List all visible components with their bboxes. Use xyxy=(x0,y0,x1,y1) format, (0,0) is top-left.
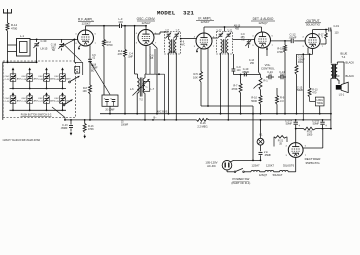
T-3 secondary coil xyxy=(227,40,229,54)
push button switch box S-3 xyxy=(3,61,76,118)
svg-text:470K: 470K xyxy=(88,128,94,131)
wire antenna down xyxy=(7,31,9,62)
switch arm S3a xyxy=(69,81,71,83)
heater 12SK7 xyxy=(265,170,274,171)
svg-text:AB-10: AB-10 xyxy=(234,25,241,28)
wire C7 down xyxy=(109,106,111,113)
wire T-2 sec out xyxy=(175,37,177,40)
trimmer C-29 row2 xyxy=(61,92,64,95)
node R-7 b xyxy=(240,113,242,115)
svg-text:250: 250 xyxy=(280,74,285,77)
svg-text:.01MF: .01MF xyxy=(289,36,297,40)
wire heater run xyxy=(244,171,251,173)
svg-text:35L6GT6: 35L6GT6 xyxy=(283,163,295,167)
svg-text:470: 470 xyxy=(312,91,317,94)
svg-text:CONTROL: CONTROL xyxy=(261,66,275,70)
svg-text:LS-1: LS-1 xyxy=(339,92,345,96)
node osc b1 xyxy=(136,113,138,115)
wire V1 cathode hook xyxy=(79,46,81,49)
svg-text:10K: 10K xyxy=(83,90,88,93)
wire loop top xyxy=(30,38,37,40)
svg-text:.05MF: .05MF xyxy=(242,70,250,74)
svg-text:BLACK: BLACK xyxy=(346,74,355,78)
IF transformer T-2 box xyxy=(165,32,181,55)
svg-text:C-22: C-22 xyxy=(5,79,11,81)
tube V5 OUTPUT 50L6GT xyxy=(305,34,320,49)
output transformer T-4 xyxy=(331,65,333,79)
capacitor C-14 xyxy=(280,75,282,79)
svg-text:C-27: C-27 xyxy=(38,101,44,103)
wire V1 plate up xyxy=(85,26,87,30)
osc coil L-6 xyxy=(137,78,139,93)
tube V2 OSC.-CONV. 12SA7 xyxy=(138,30,154,46)
tube V1 R.F. AMPL 12SK7 xyxy=(78,30,94,46)
T-3 core xyxy=(223,39,225,53)
node C-13 xyxy=(70,119,72,121)
tone switch box xyxy=(315,97,324,106)
resistor R-7 xyxy=(240,75,242,84)
svg-text:50L6GT/G: 50L6GT/G xyxy=(306,23,321,27)
node R-15 bus xyxy=(284,113,286,115)
resistor R-13 xyxy=(84,120,86,124)
svg-text:12SA7: 12SA7 xyxy=(251,164,260,168)
T-2 primary coil xyxy=(169,40,171,54)
capacitor C-13 xyxy=(70,120,72,125)
svg-text:C-28: C-28 xyxy=(54,79,60,81)
svg-text:TONE: TONE xyxy=(317,103,324,105)
T-2 trimmer C-9 xyxy=(175,33,179,35)
svg-text:I-1: I-1 xyxy=(259,132,263,136)
svg-text:CAPACITY VALUES IN MMF UNLESS: CAPACITY VALUES IN MMF UNLESS NOTED xyxy=(3,138,41,142)
svg-text:OSC: OSC xyxy=(5,76,10,78)
wire osc bottoms xyxy=(136,93,138,114)
wire V3 top xyxy=(203,27,205,33)
wire V2 top xyxy=(145,26,147,30)
loop antenna L-1 xyxy=(17,39,31,57)
wire V4 plate out xyxy=(271,40,292,42)
wire R-5 bottom run xyxy=(201,105,253,107)
svg-text:C-10: C-10 xyxy=(217,29,223,31)
wire h4 xyxy=(288,171,296,173)
node loop-bot xyxy=(36,61,38,63)
resistor R-2 xyxy=(103,40,106,47)
node c17a xyxy=(295,119,297,121)
wire plug top xyxy=(230,160,233,162)
node osc b2 xyxy=(144,119,146,121)
svg-text:100: 100 xyxy=(118,20,123,24)
wire diag cath xyxy=(90,62,110,95)
svg-text:RED: RED xyxy=(335,76,340,78)
node top-104 xyxy=(103,25,105,27)
wire rect cath dn xyxy=(295,157,297,171)
wire V4 cathode down xyxy=(258,48,260,73)
svg-text:R-1: R-1 xyxy=(264,79,269,83)
wire top B+ line xyxy=(86,25,120,27)
node T-3 b2 xyxy=(227,119,229,121)
svg-text:110: 110 xyxy=(237,69,242,72)
capacitor C-24 xyxy=(268,75,270,79)
antenna xyxy=(4,9,12,13)
node V2 top xyxy=(145,25,147,27)
svg-text:.01: .01 xyxy=(268,74,272,77)
svg-text:50MF: 50MF xyxy=(297,89,304,92)
wire lamp dn xyxy=(260,145,262,151)
svg-text:OSC: OSC xyxy=(38,98,43,100)
wire V4 pin stub xyxy=(266,47,268,57)
node T-3 b1 xyxy=(220,113,222,115)
svg-text:470K: 470K xyxy=(231,87,237,91)
wire screen drop x104 xyxy=(103,26,105,40)
wire plug bottom xyxy=(226,170,228,172)
wire V3 plate xyxy=(212,37,217,39)
wire row1 bus xyxy=(10,88,67,90)
wire step xyxy=(74,39,76,62)
wire rect side xyxy=(303,147,323,149)
svg-text:T-2: T-2 xyxy=(139,99,143,102)
capacitor C-5 xyxy=(88,58,92,60)
svg-text:L-7: L-7 xyxy=(151,88,155,91)
svg-text:50L6GT: 50L6GT xyxy=(273,173,283,177)
electrolytic C-17A xyxy=(295,120,297,122)
svg-text:(PART OF R-1): (PART OF R-1) xyxy=(231,181,250,185)
wire grid line xyxy=(37,38,78,40)
svg-text:+: + xyxy=(325,124,327,128)
capacitor C-10d xyxy=(243,73,245,77)
capacitor C-12a xyxy=(232,68,236,70)
wire ground run xyxy=(3,61,8,63)
wire V5 cath xyxy=(302,54,304,120)
node bus cross1 xyxy=(152,119,154,121)
wire V2 plate to T-2 xyxy=(154,33,160,35)
shield box M xyxy=(75,66,80,73)
wire V2 pin4 xyxy=(154,49,156,74)
tube V4 DET. & AUDIO 12SQ7 xyxy=(255,32,271,48)
svg-text:C-18: C-18 xyxy=(91,65,97,67)
resistor R-16 xyxy=(197,119,210,122)
wire top right B+ xyxy=(313,29,328,31)
trimmer C-23 row2 xyxy=(12,92,15,95)
resistor R-9 xyxy=(276,88,278,96)
svg-text:BLUE: BLUE xyxy=(341,52,348,56)
node R5-253 xyxy=(252,113,254,115)
svg-text:AVC: AVC xyxy=(181,43,186,46)
svg-text:L8-15: L8-15 xyxy=(41,47,48,51)
speaker LS-1 xyxy=(336,85,341,90)
svg-text:OSC: OSC xyxy=(5,98,10,100)
wire osc right top xyxy=(144,74,146,78)
wire rect plate up xyxy=(295,129,297,143)
wire T-2 drops xyxy=(168,53,170,114)
capacitor C-19 xyxy=(328,28,330,32)
power switch xyxy=(234,171,236,173)
wire x164 drop xyxy=(164,74,166,120)
bus B- y119.9 xyxy=(64,119,197,121)
node v5cath-b xyxy=(302,119,304,121)
switch arm S3b xyxy=(63,104,65,106)
svg-text:.05MF: .05MF xyxy=(60,127,68,130)
bus AVC y113.7 xyxy=(100,113,331,115)
svg-text:C-23: C-23 xyxy=(5,101,11,103)
T-3 trimmer C-11 xyxy=(227,33,231,35)
svg-text:R-5: R-5 xyxy=(193,72,198,76)
trimmer C-26 row1 xyxy=(45,68,48,71)
resistor R-11 xyxy=(296,54,298,65)
svg-text:4700: 4700 xyxy=(107,43,113,47)
resistor R-10 xyxy=(260,90,262,96)
svg-text:C-29: C-29 xyxy=(54,101,60,103)
resistor R-8 xyxy=(89,62,91,85)
resistor R-3 xyxy=(124,26,126,50)
svg-text:+: + xyxy=(110,96,112,100)
svg-text:47K: 47K xyxy=(118,52,123,56)
wire V3 cath drop xyxy=(207,48,209,106)
AC plug xyxy=(222,160,232,170)
trimmer C-24 row1 xyxy=(28,68,31,71)
node T-2 b2 xyxy=(175,119,177,121)
capacitor C-12 xyxy=(290,39,292,43)
wire h3 xyxy=(274,171,280,173)
wire plate drop xyxy=(330,30,332,64)
node C7 bus xyxy=(109,113,111,115)
svg-text:2.2 MEG.: 2.2 MEG. xyxy=(197,124,208,128)
T-3 trimmer C-10 xyxy=(219,33,223,35)
resistor R-17 xyxy=(325,30,327,34)
tube V6 rectifier 35Z5GT xyxy=(288,143,303,158)
svg-text:470K: 470K xyxy=(277,50,283,54)
trimmer C-30 xyxy=(36,39,38,42)
tube V3 I.F. AMPL 12SK7 xyxy=(196,33,212,49)
capacitor C-3 xyxy=(119,24,121,28)
heater 12SQ7 xyxy=(280,170,289,171)
node loop-top xyxy=(36,39,38,41)
trimmer C-16 xyxy=(61,39,63,42)
svg-text:ANT: ANT xyxy=(66,78,71,81)
svg-text:OSC: OSC xyxy=(54,76,59,78)
svg-text:35Z5GT/G: 35Z5GT/G xyxy=(305,161,320,165)
svg-text:12SK7: 12SK7 xyxy=(200,20,209,24)
trimmer C-13g xyxy=(248,40,250,41)
wire v5 g xyxy=(297,53,313,55)
wire sw diag xyxy=(52,107,65,118)
svg-text:+: + xyxy=(298,124,300,128)
trimmer C-27 row2 xyxy=(45,92,48,95)
capacitor C-21 xyxy=(259,151,263,153)
wire B+ row xyxy=(296,128,304,130)
volume control R-1 xyxy=(258,74,261,76)
wire T-3 drops xyxy=(220,53,222,114)
heater 12SA7 xyxy=(251,170,260,171)
svg-text:12SK7: 12SK7 xyxy=(266,164,275,168)
svg-text:C-24: C-24 xyxy=(21,79,27,81)
svg-text:AC-DC: AC-DC xyxy=(207,164,216,168)
trimmer C-28 row1 xyxy=(61,68,64,71)
node scr xyxy=(325,29,327,31)
svg-text:455 KC: 455 KC xyxy=(168,50,177,54)
svg-text:50MF: 50MF xyxy=(313,123,320,126)
svg-text:OSC: OSC xyxy=(21,76,26,78)
wire V3 k hook xyxy=(197,48,199,51)
svg-text:1000: 1000 xyxy=(307,133,313,136)
wire V1 k drop xyxy=(89,45,91,59)
svg-text:BO: BO xyxy=(91,71,95,73)
osc padder box xyxy=(144,81,150,91)
osc coil core xyxy=(139,78,141,97)
svg-text:L-6: L-6 xyxy=(130,88,134,91)
svg-text:.05MF: .05MF xyxy=(91,68,98,70)
svg-text:12SQ7: 12SQ7 xyxy=(259,173,268,177)
node R-13 xyxy=(84,119,86,121)
node det-240 xyxy=(240,74,242,76)
svg-text:BLACK: BLACK xyxy=(346,61,355,65)
svg-text:250: 250 xyxy=(250,62,255,65)
node T4 bus xyxy=(330,113,332,115)
wire V2 pin5 xyxy=(152,43,157,48)
node R-11 b xyxy=(296,113,298,115)
resistor R-14 xyxy=(6,23,9,31)
svg-text:OSC: OSC xyxy=(38,76,43,78)
resistor R-12 xyxy=(309,54,311,88)
svg-text:C-11: C-11 xyxy=(227,29,232,31)
node x134.6 top xyxy=(134,25,136,27)
resistor R-21 xyxy=(274,136,287,139)
svg-text:12SA7: 12SA7 xyxy=(141,21,150,25)
svg-text:MODEL 321: MODEL 321 xyxy=(157,9,195,16)
node R-3 bottom xyxy=(124,113,126,115)
IF transformer T-3 box xyxy=(217,32,233,55)
osc tuning arrow xyxy=(133,79,150,96)
svg-text:AVC BUS: AVC BUS xyxy=(157,111,168,114)
node antenna-ground xyxy=(7,61,9,63)
trimmer C-22 row1 xyxy=(12,68,15,71)
node R-10 b xyxy=(260,113,262,115)
svg-text:PUSH BUTTON SWITCH S-3: PUSH BUTTON SWITCH S-3 xyxy=(21,113,52,117)
svg-text:T-4: T-4 xyxy=(342,55,346,59)
node T-2 b1 xyxy=(168,113,170,115)
T-4 leads xyxy=(336,62,338,65)
wire T-3 out xyxy=(233,39,255,41)
pilot lamp I-1 xyxy=(257,138,264,145)
T-2 trimmer C-8 xyxy=(167,33,171,35)
wire osc drop xyxy=(134,26,136,74)
svg-text:C-25: C-25 xyxy=(21,101,27,103)
svg-text:4700: 4700 xyxy=(11,27,18,31)
wire lamp up xyxy=(260,120,262,138)
svg-text:+: + xyxy=(104,96,106,100)
svg-text:5000: 5000 xyxy=(251,99,257,103)
wire det line xyxy=(233,74,258,76)
electrolytic C-7 box xyxy=(102,95,118,106)
wire V4 top xyxy=(261,27,263,32)
svg-text:KC: KC xyxy=(241,40,245,42)
wire tone to bus xyxy=(309,97,311,101)
svg-text:LONG: LONG xyxy=(316,100,323,102)
electrolytic C-17B xyxy=(322,120,324,122)
svg-text:.05MF: .05MF xyxy=(264,154,272,157)
T-3 primary coil xyxy=(221,40,223,54)
svg-text:L-1: L-1 xyxy=(20,34,24,38)
svg-text:10K: 10K xyxy=(193,75,198,79)
svg-text:110: 110 xyxy=(335,32,340,35)
svg-text:3.3: 3.3 xyxy=(280,99,284,103)
trimmer C-25 row2 xyxy=(28,92,31,95)
svg-text:12SK7: 12SK7 xyxy=(81,21,90,25)
T-2 core xyxy=(171,39,173,53)
T-2 secondary coil xyxy=(175,40,177,54)
svg-text:OSC: OSC xyxy=(21,98,26,100)
svg-text:C-26: C-26 xyxy=(38,79,44,81)
wire h2 xyxy=(260,171,265,173)
wire V5 plate top xyxy=(312,30,314,34)
osc coil L-7 xyxy=(143,78,145,93)
svg-text:C-30: C-30 xyxy=(41,39,47,43)
resistor R-20 xyxy=(304,127,316,130)
svg-text:300V: 300V xyxy=(298,61,304,64)
node R-3 top xyxy=(124,25,126,27)
svg-text:50MF: 50MF xyxy=(286,123,293,126)
wire C-12 to V5 xyxy=(294,40,305,42)
resistor R-5 xyxy=(200,49,202,72)
svg-text:C-19: C-19 xyxy=(334,25,340,28)
node R-9 b xyxy=(276,113,278,115)
wire V2 pin3 xyxy=(149,46,151,74)
node c17b xyxy=(322,119,324,121)
svg-text:12SQ7: 12SQ7 xyxy=(258,21,268,25)
resistor R-15 xyxy=(284,41,286,45)
wire row2 bus xyxy=(10,109,67,111)
svg-text:OSC: OSC xyxy=(54,98,59,100)
node R-8 b xyxy=(89,119,91,121)
svg-text:100MF: 100MF xyxy=(121,125,129,127)
node R-15 top xyxy=(284,40,286,42)
wire osc top bar xyxy=(146,73,165,75)
svg-text:.1MF: .1MF xyxy=(128,55,134,58)
wire loop bottom xyxy=(8,61,37,63)
